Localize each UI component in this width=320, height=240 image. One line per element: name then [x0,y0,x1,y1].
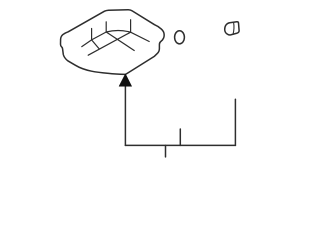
oil filler cap outline [225,22,239,35]
cover rib diagonal L1 [106,32,134,51]
leader up tick [179,129,181,145]
cover rib tick V1 [91,29,93,40]
oil filler cap face edge [232,23,235,35]
o-ring seal [175,31,185,44]
cover rib tick V2 [105,22,107,32]
leader horizontal line [125,144,235,146]
leader arrow stem [124,86,126,145]
leader down tick [165,145,167,157]
cylinder head cover outline [61,10,165,75]
cover rib tick V3 [130,20,132,33]
cover rib diagonal D [131,32,150,41]
cover rib diagonal L2 [88,32,130,55]
leader right vertical [234,99,236,145]
cover rib diagonal P [82,32,106,47]
arrowhead [119,74,132,87]
cover rib arc [106,30,130,32]
cover rib connector R [92,40,100,49]
